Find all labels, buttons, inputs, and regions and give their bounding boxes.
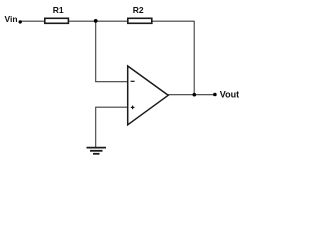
svg-text:Vin: Vin bbox=[5, 14, 18, 24]
svg-text:Vout: Vout bbox=[220, 89, 239, 99]
svg-text:R2: R2 bbox=[133, 5, 144, 15]
svg-text:R1: R1 bbox=[53, 5, 64, 15]
